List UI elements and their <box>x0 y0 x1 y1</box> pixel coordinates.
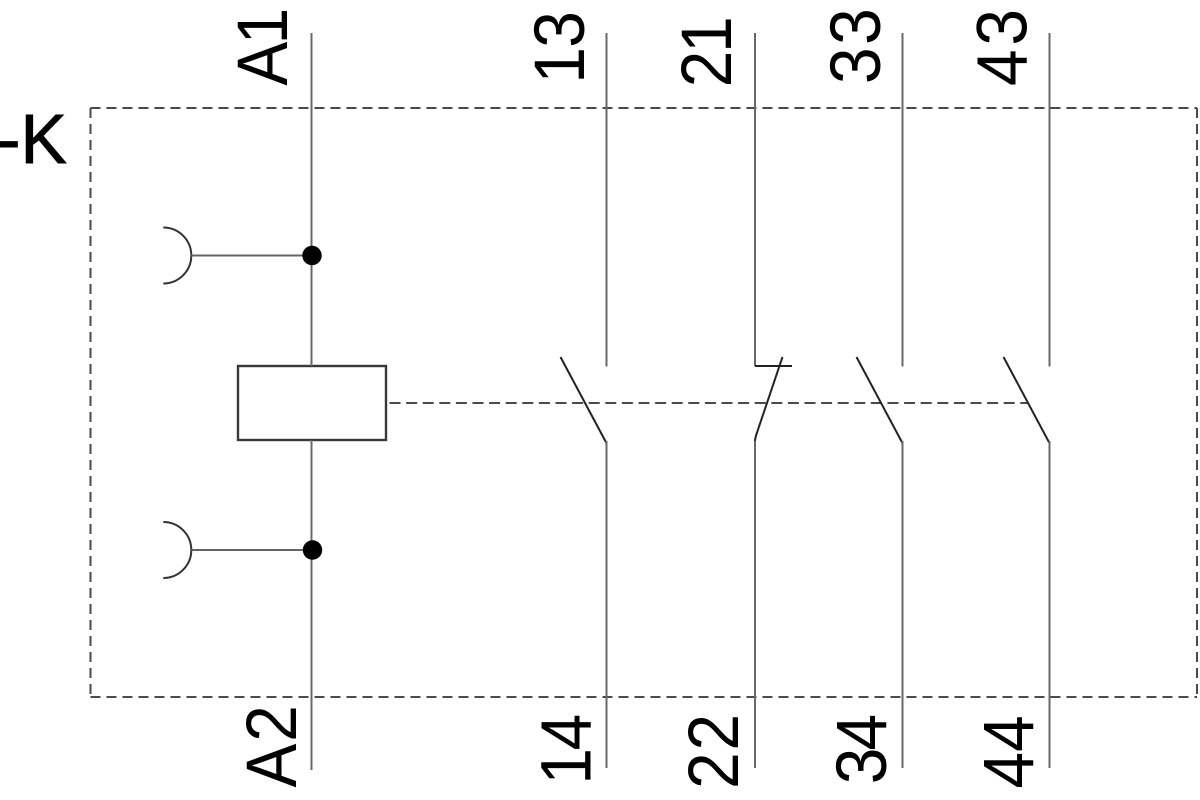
svg-text:-K: -K <box>0 100 67 178</box>
contact 33-34 blade <box>857 357 903 443</box>
contact 13-14 (NO) top lead <box>606 33 608 367</box>
contact 13-14 blade <box>561 357 607 443</box>
junction dot upper <box>302 246 321 265</box>
contact 43-44 blade <box>1004 357 1050 443</box>
contact 21-22 bottom lead <box>754 441 756 768</box>
svg-text:43: 43 <box>962 5 1042 86</box>
contact 21-22 (NC) top lead <box>754 33 756 366</box>
svg-text:21: 21 <box>667 19 747 88</box>
contact 21-22 stop bar <box>755 365 792 367</box>
svg-text:22: 22 <box>673 712 753 789</box>
junction dot lower <box>303 540 322 559</box>
enclosure dashed box <box>91 108 1198 697</box>
contact 33-34 bottom lead <box>902 441 904 768</box>
wire stub to lower junction <box>191 549 311 551</box>
contact 43-44 (NO) top lead <box>1049 33 1051 367</box>
wire A2 (coil bottom lead) <box>311 440 313 770</box>
coil K (rectangle) <box>238 366 386 440</box>
svg-text:13: 13 <box>519 12 599 84</box>
coil terminal arc (lower socket) <box>163 522 191 578</box>
svg-text:A1: A1 <box>222 10 302 85</box>
svg-text:33: 33 <box>815 6 895 84</box>
mechanical linkage dashed line <box>386 402 1028 404</box>
svg-text:A2: A2 <box>231 703 311 787</box>
contact 21-22 blade <box>755 357 783 441</box>
svg-text:14: 14 <box>526 715 606 785</box>
wire A1 (coil top lead) <box>311 33 313 366</box>
contact 33-34 (NO) top lead <box>902 33 904 367</box>
svg-text:44: 44 <box>968 715 1048 788</box>
svg-text:34: 34 <box>821 715 901 784</box>
wire stub to upper junction <box>191 255 311 257</box>
contact 13-14 bottom lead <box>606 441 608 768</box>
contact 43-44 bottom lead <box>1049 441 1051 768</box>
coil terminal arc (upper socket) <box>163 228 191 284</box>
